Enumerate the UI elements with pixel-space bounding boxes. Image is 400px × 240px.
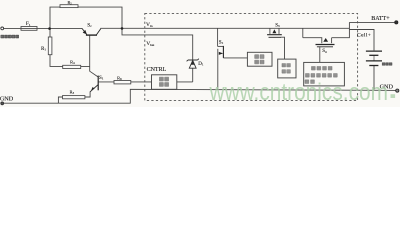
svg-text:Vin: Vin xyxy=(146,22,153,28)
svg-text:Vbat: Vbat xyxy=(146,41,154,47)
svg-text:S4: S4 xyxy=(322,49,327,54)
svg-text:www.cntronics.com: www.cntronics.com xyxy=(209,79,388,106)
svg-text:GND: GND xyxy=(0,96,14,103)
svg-text:S2: S2 xyxy=(219,40,224,45)
svg-text:R4: R4 xyxy=(70,59,75,65)
svg-text:F1: F1 xyxy=(26,21,31,27)
svg-text:R6: R6 xyxy=(117,75,122,81)
svg-text:BATT+: BATT+ xyxy=(371,16,390,22)
svg-text:R1: R1 xyxy=(41,47,46,52)
svg-text:CNTRL: CNTRL xyxy=(147,67,167,73)
svg-text:D1: D1 xyxy=(198,62,204,67)
svg-text:S3: S3 xyxy=(275,23,280,28)
svg-text:Cell+: Cell+ xyxy=(357,33,371,39)
svg-text:Sc: Sc xyxy=(87,22,92,28)
svg-text:R3: R3 xyxy=(70,89,75,95)
svg-text:S1: S1 xyxy=(99,76,104,81)
